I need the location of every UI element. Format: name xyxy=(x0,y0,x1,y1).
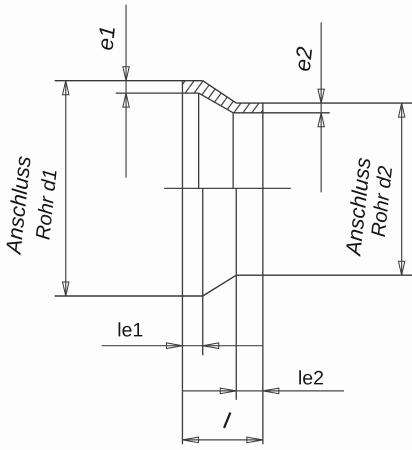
label le2 xyxy=(299,370,323,384)
pipe d1 outer top line xyxy=(55,80,203,82)
label e1 xyxy=(97,27,115,50)
outer taper top xyxy=(203,81,237,103)
label Rohr d1 xyxy=(35,170,57,240)
arrow e1 up (below wall) xyxy=(123,93,129,107)
inner taper top xyxy=(199,93,234,113)
dimension line d2 xyxy=(401,103,403,275)
arrow d2 down xyxy=(398,261,404,275)
label Rohr d2 xyxy=(370,166,392,237)
arrow e2 up (below wall) xyxy=(318,113,324,127)
extension line D: fitting right end xyxy=(262,103,264,444)
pipe d2 outer top line xyxy=(236,102,412,104)
extension line B: outer taper start xyxy=(202,188,204,355)
arrow le2 left (tip at D) xyxy=(263,388,279,394)
centerline xyxy=(164,187,291,189)
outer taper bottom xyxy=(203,275,237,296)
arrow l right xyxy=(247,437,263,443)
label e2 xyxy=(294,46,312,71)
arrow le2 right (tip at C) xyxy=(220,388,236,394)
extension line: inner taper start xyxy=(198,93,200,188)
label Anschluss (right) xyxy=(345,157,371,257)
pipe d1 outer bottom line xyxy=(55,295,203,297)
extension line A: fitting left end xyxy=(181,81,183,444)
pipe d2 outer bottom line xyxy=(236,274,412,276)
dimension line e2 xyxy=(320,22,322,192)
arrow d2 up xyxy=(398,103,404,117)
pipe d2 bore line (e2 extension) xyxy=(233,112,330,114)
label l xyxy=(224,413,230,428)
arrow le1 left (tip at B) xyxy=(203,343,219,349)
extension line C: outer taper end xyxy=(235,188,237,400)
extension line: inner taper end xyxy=(232,113,234,189)
arrow e1 down (above wall) xyxy=(123,67,129,81)
label Anschluss (left) xyxy=(5,156,31,256)
dimension line d1 xyxy=(65,81,67,296)
arrow d1 down xyxy=(63,282,69,296)
arrow l left xyxy=(182,437,198,443)
arrow d1 up xyxy=(63,81,69,95)
arrow le1 right (tip at A) xyxy=(166,343,182,349)
pipe d1 bore line (e1 extension) xyxy=(116,92,199,94)
dimension line le1 xyxy=(102,345,263,347)
reducer wall section hatching xyxy=(182,81,262,113)
dimension line e1 xyxy=(125,5,127,178)
arrow e2 down (above wall) xyxy=(318,89,324,103)
label le1 xyxy=(119,322,143,336)
dimension line le2 xyxy=(182,390,344,392)
dimension line l xyxy=(182,439,262,441)
